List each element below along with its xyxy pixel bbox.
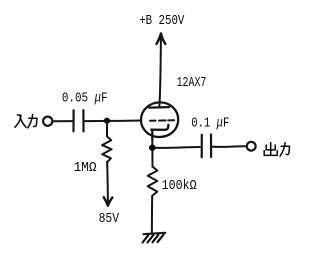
svg-text:+B 250V: +B 250V [139,13,185,29]
node B (cathode junction) [149,144,156,151]
svg-text:1MΩ: 1MΩ [74,160,97,176]
node A (grid/input junction) [104,118,110,124]
label 出力 (output) [264,143,289,156]
wire R1 to 85V arrow [104,162,113,206]
svg-text:0.1 μF: 0.1 μF [191,116,229,132]
svg-text:12AX7: 12AX7 [177,75,207,91]
wire C2 to output terminal [212,145,245,148]
capacitor C1 0.05uF [74,110,84,131]
wire input terminal to C1 [53,120,73,122]
wire cathode to node B [151,139,153,147]
ground (chassis) [143,233,166,243]
wire C1 to grid via node A [85,120,140,123]
output terminal [247,142,256,151]
svg-text:100kΩ: 100kΩ [162,178,197,194]
wire node B to R2 [151,150,153,167]
wire plate supply (arrow up to +B) [156,34,165,108]
input terminal [43,117,52,126]
svg-text:0.05 μF: 0.05 μF [62,91,108,107]
tube plate (anode) [149,106,169,109]
tube U1 12AX7 envelope [141,102,178,137]
capacitor C2 0.1uF [202,135,211,158]
resistor R1 1M ohm [102,122,112,162]
resistor R2 100k ohm [148,167,158,198]
tube grid (dashed) [150,119,174,121]
wire R2 to ground [151,198,153,233]
tube cathode [151,125,168,139]
svg-text:85V: 85V [99,211,120,227]
wire node B to C2 [155,146,200,149]
label 入力 (input) [15,115,37,128]
